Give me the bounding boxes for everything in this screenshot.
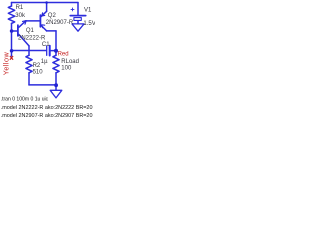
svg-text:V1: V1 [84,8,92,14]
svg-text:510: 510 [33,69,44,75]
svg-text:R2: R2 [33,63,41,69]
svg-text:.model 2N2907-R ako:2N2907 BR=: .model 2N2907-R ako:2N2907 BR=20 [1,113,93,119]
svg-text:C1: C1 [42,42,50,48]
svg-text:100: 100 [61,65,72,71]
svg-text:Red: Red [58,52,69,58]
svg-text:.model 2N2222-R ako:2N2222 BR=: .model 2N2222-R ako:2N2222 BR=20 [1,105,93,111]
svg-text:2N2222-R: 2N2222-R [18,36,46,42]
svg-text:Q2: Q2 [48,13,57,19]
svg-text:Q1: Q1 [26,28,35,34]
svg-text:.tran 0 100m 0 1u uic: .tran 0 100m 0 1u uic [1,96,49,102]
svg-text:1.5V: 1.5V [83,21,95,27]
svg-text:1µ: 1µ [41,59,48,65]
svg-text:R1: R1 [16,5,24,11]
svg-text:Yellow: Yellow [2,52,11,76]
svg-text:2N2907-R: 2N2907-R [46,20,74,26]
svg-text:RLoad: RLoad [61,59,79,65]
svg-text:30k: 30k [15,13,26,19]
